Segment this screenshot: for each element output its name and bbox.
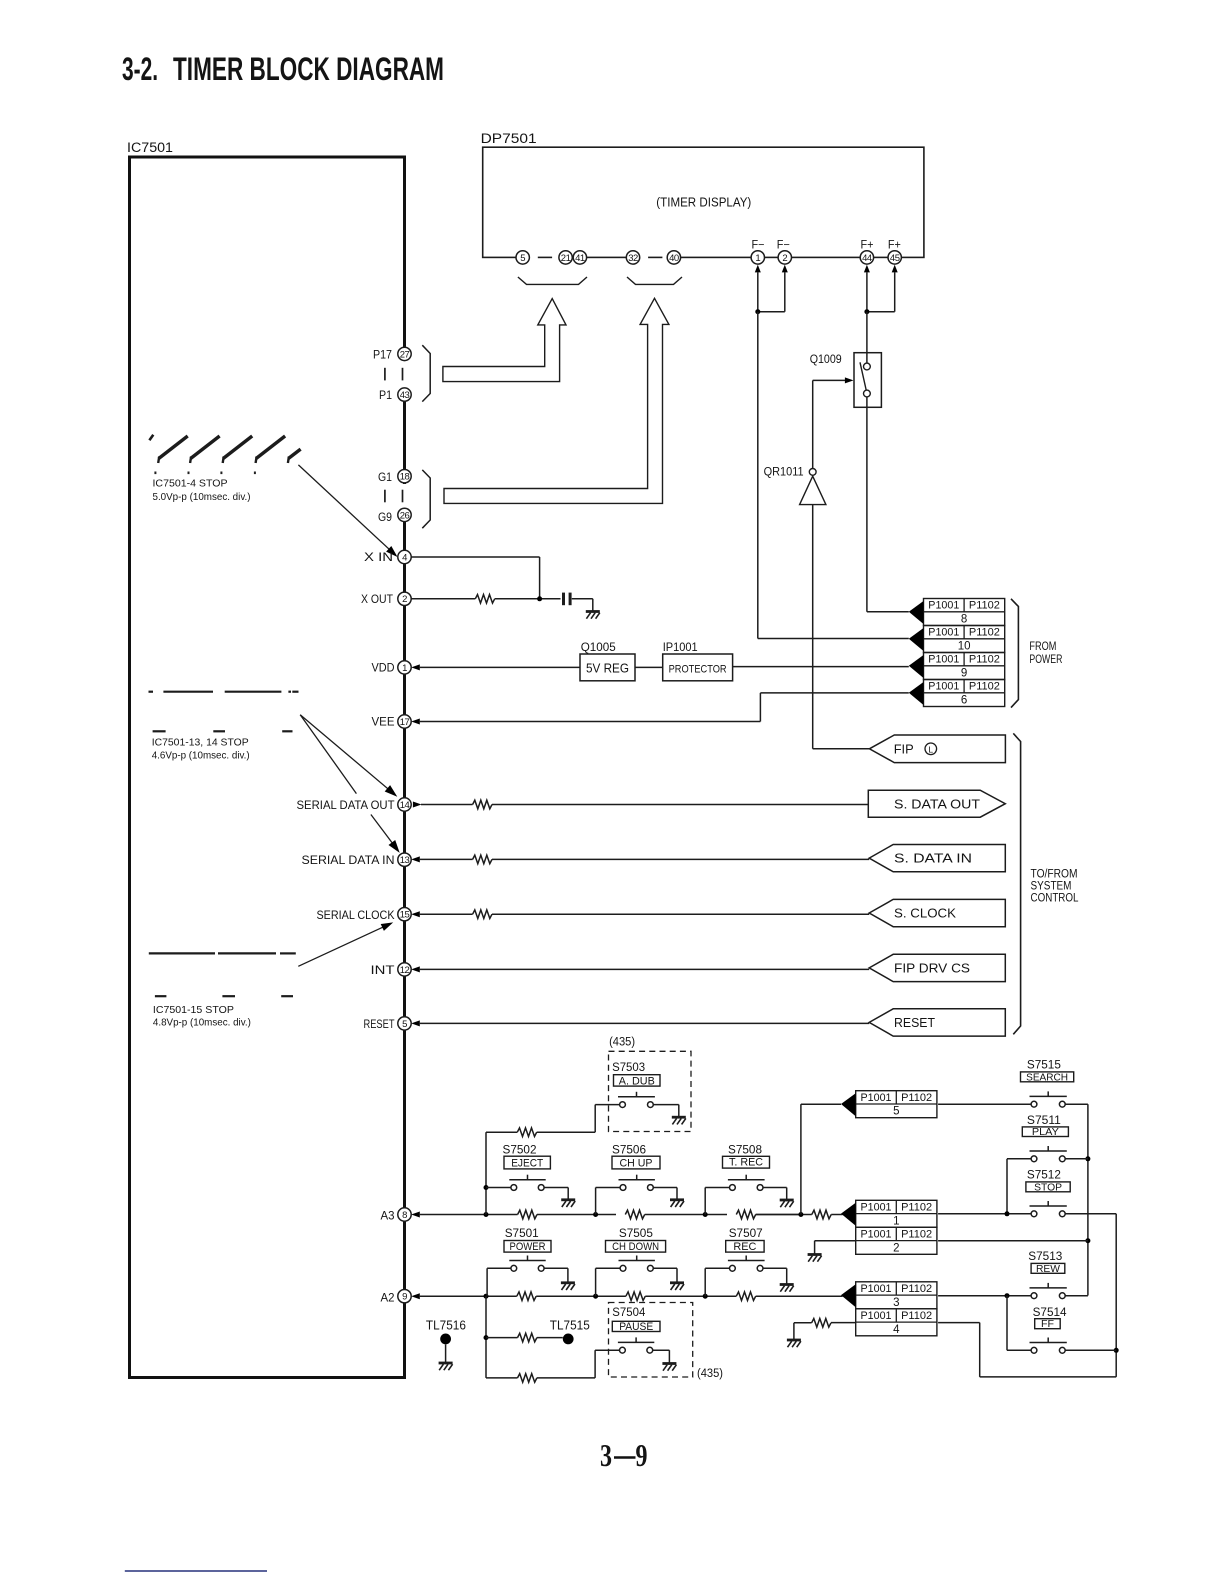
svg-text:6: 6: [961, 695, 967, 707]
svg-text:PAUSE: PAUSE: [619, 1321, 653, 1333]
svg-text:A2: A2: [381, 1291, 395, 1305]
svg-text:POWER: POWER: [1029, 654, 1062, 666]
svg-text:1: 1: [755, 253, 760, 264]
svg-text:REW: REW: [1036, 1263, 1060, 1275]
svg-text:CH DOWN: CH DOWN: [612, 1241, 659, 1253]
svg-text:26: 26: [400, 510, 410, 521]
svg-text:STOP: STOP: [1034, 1181, 1062, 1193]
svg-text:G9: G9: [378, 510, 392, 524]
svg-text:P1102: P1102: [901, 1092, 932, 1104]
svg-text:8: 8: [402, 1210, 407, 1221]
svg-text:FIP: FIP: [894, 742, 914, 757]
svg-text:5V REG: 5V REG: [586, 662, 629, 676]
svg-text:15: 15: [400, 910, 410, 921]
svg-text:P1102: P1102: [969, 600, 1000, 612]
svg-text:14: 14: [400, 800, 410, 811]
svg-text:43: 43: [400, 390, 410, 401]
svg-text:PLAY: PLAY: [1032, 1126, 1059, 1138]
svg-text:SERIAL DATA OUT: SERIAL DATA OUT: [297, 798, 396, 812]
svg-text:(TIMER DISPLAY): (TIMER DISPLAY): [656, 196, 751, 210]
svg-text:P1001: P1001: [861, 1310, 892, 1322]
svg-text:CH UP: CH UP: [620, 1157, 653, 1169]
svg-text:17: 17: [400, 717, 410, 728]
svg-text:PROTECTOR: PROTECTOR: [669, 664, 727, 676]
svg-text:18: 18: [400, 472, 410, 483]
svg-text:(435): (435): [609, 1037, 635, 1049]
svg-text:INT: INT: [371, 963, 396, 977]
svg-text:TO/FROM: TO/FROM: [1031, 869, 1078, 881]
svg-text:X OUT: X OUT: [361, 592, 394, 606]
svg-text:13: 13: [400, 855, 410, 866]
svg-text:P1001: P1001: [861, 1228, 892, 1240]
svg-text:P1001: P1001: [861, 1283, 892, 1295]
svg-text:P17: P17: [373, 347, 392, 361]
svg-text:S7515: S7515: [1027, 1058, 1061, 1072]
svg-text:2: 2: [893, 1242, 899, 1254]
svg-text:S. DATA IN: S. DATA IN: [894, 851, 972, 866]
svg-text:3: 3: [893, 1297, 899, 1309]
svg-text:4: 4: [893, 1324, 900, 1336]
svg-text:QR1011: QR1011: [764, 464, 804, 478]
svg-text:EJECT: EJECT: [511, 1157, 543, 1169]
svg-text:S7512: S7512: [1027, 1168, 1061, 1182]
svg-text:1: 1: [893, 1215, 899, 1227]
svg-text:X IN: X IN: [364, 550, 393, 564]
svg-text:T. REC: T. REC: [729, 1157, 763, 1169]
svg-text:P1102: P1102: [969, 681, 1000, 693]
svg-text:12: 12: [400, 965, 410, 976]
svg-text:(435): (435): [697, 1368, 723, 1380]
svg-text:2: 2: [402, 594, 407, 605]
svg-text:IC7501-13, 14 STOP: IC7501-13, 14 STOP: [152, 737, 249, 749]
svg-text:F−: F−: [752, 240, 765, 252]
svg-text:Q1009: Q1009: [810, 352, 842, 366]
svg-text:FIP DRV CS: FIP DRV CS: [894, 961, 970, 976]
svg-text:P1001: P1001: [928, 627, 959, 639]
svg-text:S7503: S7503: [612, 1060, 645, 1074]
svg-text:SYSTEM: SYSTEM: [1031, 881, 1072, 893]
svg-text:21: 21: [561, 253, 571, 264]
svg-text:Q1005: Q1005: [581, 640, 616, 654]
svg-text:IC7501: IC7501: [127, 140, 173, 155]
svg-text:S7505: S7505: [619, 1226, 653, 1240]
svg-text:P1102: P1102: [901, 1201, 932, 1213]
svg-text:S7507: S7507: [729, 1226, 763, 1240]
svg-text:S. CLOCK: S. CLOCK: [894, 906, 956, 921]
svg-text:P1001: P1001: [928, 654, 959, 666]
svg-text:RESET: RESET: [364, 1017, 396, 1031]
svg-text:IP1001: IP1001: [663, 640, 698, 654]
svg-text:P1102: P1102: [901, 1228, 932, 1240]
svg-text:4.6Vp-p (10msec. div.): 4.6Vp-p (10msec. div.): [152, 750, 250, 762]
svg-text:FROM: FROM: [1029, 641, 1056, 653]
svg-text:FF: FF: [1041, 1318, 1054, 1330]
svg-text:45: 45: [890, 253, 900, 264]
svg-text:CONTROL: CONTROL: [1031, 893, 1080, 905]
svg-text:P1001: P1001: [861, 1092, 892, 1104]
svg-text:32: 32: [628, 253, 638, 264]
svg-text:5.0Vp-p (10msec. div.): 5.0Vp-p (10msec. div.): [153, 491, 251, 503]
svg-text:S7513: S7513: [1028, 1249, 1062, 1263]
svg-text:2: 2: [782, 253, 787, 264]
svg-text:44: 44: [862, 253, 872, 264]
svg-text:TIMER BLOCK DIAGRAM: TIMER BLOCK DIAGRAM: [173, 51, 444, 87]
svg-text:S7514: S7514: [1033, 1305, 1067, 1319]
svg-text:F+: F+: [861, 240, 874, 252]
svg-text:VDD: VDD: [372, 661, 395, 675]
svg-text:8: 8: [961, 614, 967, 626]
svg-text:10: 10: [958, 641, 971, 653]
svg-text:TL7516: TL7516: [426, 1318, 466, 1332]
svg-text:27: 27: [400, 349, 410, 360]
svg-text:A3: A3: [381, 1209, 395, 1223]
svg-text:4.8Vp-p (10msec. div.): 4.8Vp-p (10msec. div.): [153, 1017, 251, 1029]
svg-text:P1001: P1001: [861, 1201, 892, 1213]
svg-text:A. DUB: A. DUB: [619, 1075, 655, 1087]
svg-text:S7506: S7506: [612, 1143, 646, 1157]
svg-text:9: 9: [961, 668, 967, 680]
svg-text:DP7501: DP7501: [481, 131, 537, 146]
svg-text:P1102: P1102: [901, 1283, 932, 1295]
svg-text:POWER: POWER: [510, 1241, 546, 1253]
svg-text:4: 4: [402, 552, 407, 563]
svg-text:S7502: S7502: [503, 1143, 537, 1157]
svg-text:P1001: P1001: [928, 681, 959, 693]
svg-text:IC7501-4 STOP: IC7501-4 STOP: [153, 478, 228, 490]
svg-text:F−: F−: [777, 240, 790, 252]
svg-text:REC: REC: [733, 1241, 756, 1253]
svg-text:P1102: P1102: [901, 1310, 932, 1322]
svg-text:L: L: [928, 745, 933, 755]
svg-text:3-2.: 3-2.: [122, 51, 158, 87]
svg-text:40: 40: [669, 253, 679, 264]
svg-text:P1102: P1102: [969, 627, 1000, 639]
svg-text:S7501: S7501: [505, 1226, 539, 1240]
svg-text:VEE: VEE: [372, 715, 395, 729]
svg-text:P1102: P1102: [969, 654, 1000, 666]
svg-text:5: 5: [893, 1106, 899, 1118]
svg-text:IC7501-15 STOP: IC7501-15 STOP: [153, 1004, 234, 1016]
svg-text:P1: P1: [379, 388, 392, 402]
svg-text:SERIAL DATA IN: SERIAL DATA IN: [302, 853, 395, 867]
svg-text:G1: G1: [378, 470, 392, 484]
svg-text:41: 41: [575, 253, 585, 264]
svg-text:S7511: S7511: [1027, 1113, 1061, 1127]
svg-text:TL7515: TL7515: [550, 1318, 590, 1332]
svg-text:F+: F+: [888, 240, 901, 252]
svg-text:9: 9: [636, 1437, 648, 1473]
svg-text:5: 5: [402, 1019, 407, 1030]
svg-text:3: 3: [600, 1437, 612, 1473]
svg-text:S. DATA OUT: S. DATA OUT: [894, 796, 980, 811]
svg-text:SERIAL CLOCK: SERIAL CLOCK: [317, 908, 395, 922]
svg-text:5: 5: [520, 253, 525, 264]
svg-text:1: 1: [402, 663, 407, 674]
svg-text:9: 9: [402, 1292, 407, 1303]
svg-text:P1001: P1001: [928, 600, 959, 612]
svg-text:RESET: RESET: [894, 1015, 935, 1030]
svg-text:S7504: S7504: [612, 1305, 645, 1319]
svg-text:S7508: S7508: [728, 1143, 762, 1157]
svg-text:SEARCH: SEARCH: [1026, 1071, 1068, 1083]
